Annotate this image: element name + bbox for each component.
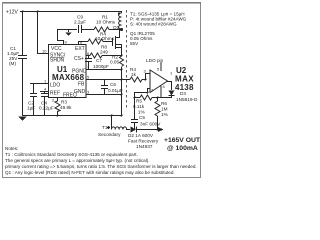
svg-text:0.01µF: 0.01µF [108, 88, 123, 93]
svg-text:1N4937: 1N4937 [136, 144, 153, 149]
svg-text:T1 : Coiltronics Standard Geom: T1 : Coiltronics Standard Geometry SGS-4… [5, 152, 138, 157]
svg-text:C5: C5 [139, 115, 145, 120]
svg-text:REF: REF [50, 91, 60, 97]
svg-text:The general specs are primary: The general specs are primary L = approx… [5, 158, 150, 163]
svg-text:FREQ: FREQ [63, 93, 77, 99]
svg-text:1%: 1% [161, 112, 168, 117]
svg-text:VCC: VCC [51, 46, 62, 52]
svg-text:D2 1A 600V: D2 1A 600V [128, 133, 154, 138]
svg-text:+12V: +12V [6, 10, 18, 16]
svg-text:55V: 55V [130, 41, 139, 46]
svg-text:(M): (M) [9, 61, 16, 66]
svg-text:0.22µF: 0.22µF [39, 106, 54, 111]
svg-text:49.9k: 49.9k [60, 105, 72, 110]
svg-text:249: 249 [100, 50, 108, 55]
svg-text:1µF: 1µF [27, 106, 35, 111]
svg-text:Fast Recovery: Fast Recovery [128, 139, 159, 144]
svg-text:C6: C6 [110, 82, 116, 87]
svg-text:Q1 : Any logic-level (RDS rate: Q1 : Any logic-level (RDS rated) N-FET w… [5, 170, 175, 175]
svg-text:C7: C7 [96, 58, 102, 63]
svg-text:10: 10 [42, 49, 47, 54]
svg-text:R6: R6 [161, 101, 167, 106]
svg-text:CS+: CS+ [74, 56, 84, 62]
svg-text:+165V OUT: +165V OUT [164, 137, 201, 144]
svg-text:1N5819-D: 1N5819-D [176, 97, 198, 102]
svg-text:1k: 1k [131, 72, 137, 77]
svg-text:@ 100mA: @ 100mA [167, 145, 198, 152]
svg-text:Q1: Q1 [113, 25, 120, 30]
svg-text:primary current rating => 5.5a: primary current rating => 5.5amps, turns… [5, 164, 197, 169]
svg-text:5.11k: 5.11k [133, 104, 145, 109]
svg-text:2.2µF: 2.2µF [74, 20, 86, 25]
svg-text:LDO: LDO [50, 83, 60, 89]
svg-text:Notes:: Notes: [5, 146, 18, 151]
svg-text:Secondary: Secondary [98, 132, 121, 137]
svg-text:LDO pin: LDO pin [146, 58, 164, 63]
svg-text:EXT: EXT [75, 46, 85, 52]
svg-text:0.05: 0.05 [110, 60, 120, 65]
svg-text:1M: 1M [161, 107, 168, 112]
svg-text:SHDN: SHDN [50, 58, 65, 64]
svg-text:10 Ohms: 10 Ohms [95, 36, 115, 41]
svg-text:T1: T1 [102, 125, 108, 130]
svg-text:1000pF: 1000pF [93, 64, 109, 69]
svg-text:R5: R5 [136, 99, 142, 104]
svg-text:MAX668: MAX668 [52, 73, 85, 82]
svg-text:4138: 4138 [175, 83, 194, 92]
svg-text:3nF 600V: 3nF 600V [140, 122, 161, 127]
svg-text:10 Ohms: 10 Ohms [96, 20, 116, 25]
svg-text:R3: R3 [61, 100, 67, 105]
svg-text:FB: FB [78, 82, 85, 88]
svg-text:1%: 1% [138, 110, 145, 115]
svg-text:S: 40t wound #28AWG: S: 40t wound #28AWG [130, 22, 177, 27]
